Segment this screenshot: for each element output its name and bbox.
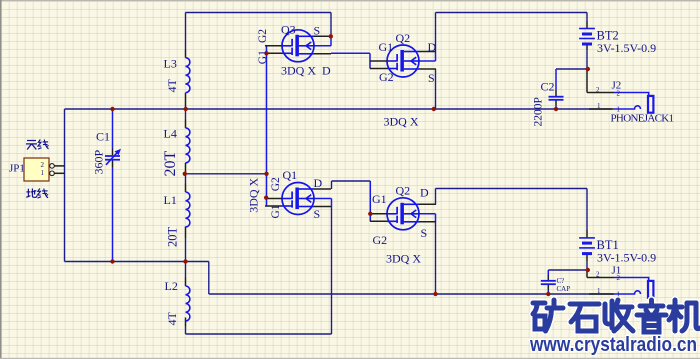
svg-text:3DQ X: 3DQ X: [386, 252, 421, 266]
svg-text:2: 2: [617, 90, 621, 98]
svg-text:G2: G2: [270, 177, 282, 191]
svg-text:G2: G2: [257, 29, 269, 43]
svg-text:2: 2: [617, 274, 621, 282]
svg-text:JP1: JP1: [9, 163, 25, 175]
svg-text:4T: 4T: [165, 312, 179, 326]
svg-text:3V-1.5V-0.9: 3V-1.5V-0.9: [597, 41, 656, 55]
svg-text:Q2: Q2: [396, 31, 411, 45]
svg-text:G2: G2: [379, 70, 394, 84]
svg-text:3DQ X: 3DQ X: [281, 64, 316, 78]
svg-text:20T: 20T: [162, 151, 179, 177]
svg-text:2200P: 2200P: [533, 97, 545, 126]
svg-text:Q1: Q1: [283, 168, 298, 182]
svg-text:D: D: [322, 64, 331, 78]
svg-text:L1: L1: [164, 193, 177, 207]
svg-text:L3: L3: [164, 57, 177, 71]
svg-text:C1: C1: [96, 130, 110, 144]
svg-text:L2: L2: [165, 279, 178, 293]
svg-text:3V-1.5V-0.9: 3V-1.5V-0.9: [597, 251, 656, 265]
svg-text:G2: G2: [373, 233, 388, 247]
svg-text:G1: G1: [257, 50, 269, 64]
svg-text:D: D: [314, 176, 323, 190]
svg-text:Q2: Q2: [396, 184, 411, 198]
svg-text:S: S: [314, 24, 321, 38]
svg-text:Q3: Q3: [281, 23, 296, 37]
svg-text:2: 2: [41, 161, 45, 169]
svg-text:C2: C2: [541, 80, 555, 94]
svg-text:S: S: [314, 207, 321, 221]
svg-text:S: S: [428, 71, 435, 85]
svg-text:20T: 20T: [166, 227, 180, 248]
svg-text:3DQ X: 3DQ X: [384, 115, 419, 129]
svg-text:D: D: [428, 40, 437, 54]
svg-text:1: 1: [597, 287, 601, 295]
svg-text:4T: 4T: [165, 79, 179, 93]
svg-text:2: 2: [596, 271, 600, 279]
svg-text:1: 1: [597, 102, 601, 110]
svg-text:www.crystalradio.cn: www.crystalradio.cn: [529, 334, 697, 356]
svg-text:360P: 360P: [92, 150, 106, 175]
svg-text:G1: G1: [372, 192, 387, 206]
svg-text:C?: C?: [557, 277, 565, 285]
svg-text:L4: L4: [164, 127, 177, 141]
svg-text:1: 1: [41, 169, 45, 177]
svg-text:D: D: [420, 186, 429, 200]
svg-text:CAP: CAP: [557, 285, 571, 293]
svg-text:3DQ X: 3DQ X: [247, 177, 261, 212]
svg-text:G1: G1: [379, 40, 394, 54]
svg-text:G1: G1: [270, 204, 282, 218]
svg-text:S: S: [421, 226, 428, 240]
svg-text:2: 2: [596, 86, 600, 94]
svg-text:PHONEJACK1: PHONEJACK1: [611, 113, 675, 125]
